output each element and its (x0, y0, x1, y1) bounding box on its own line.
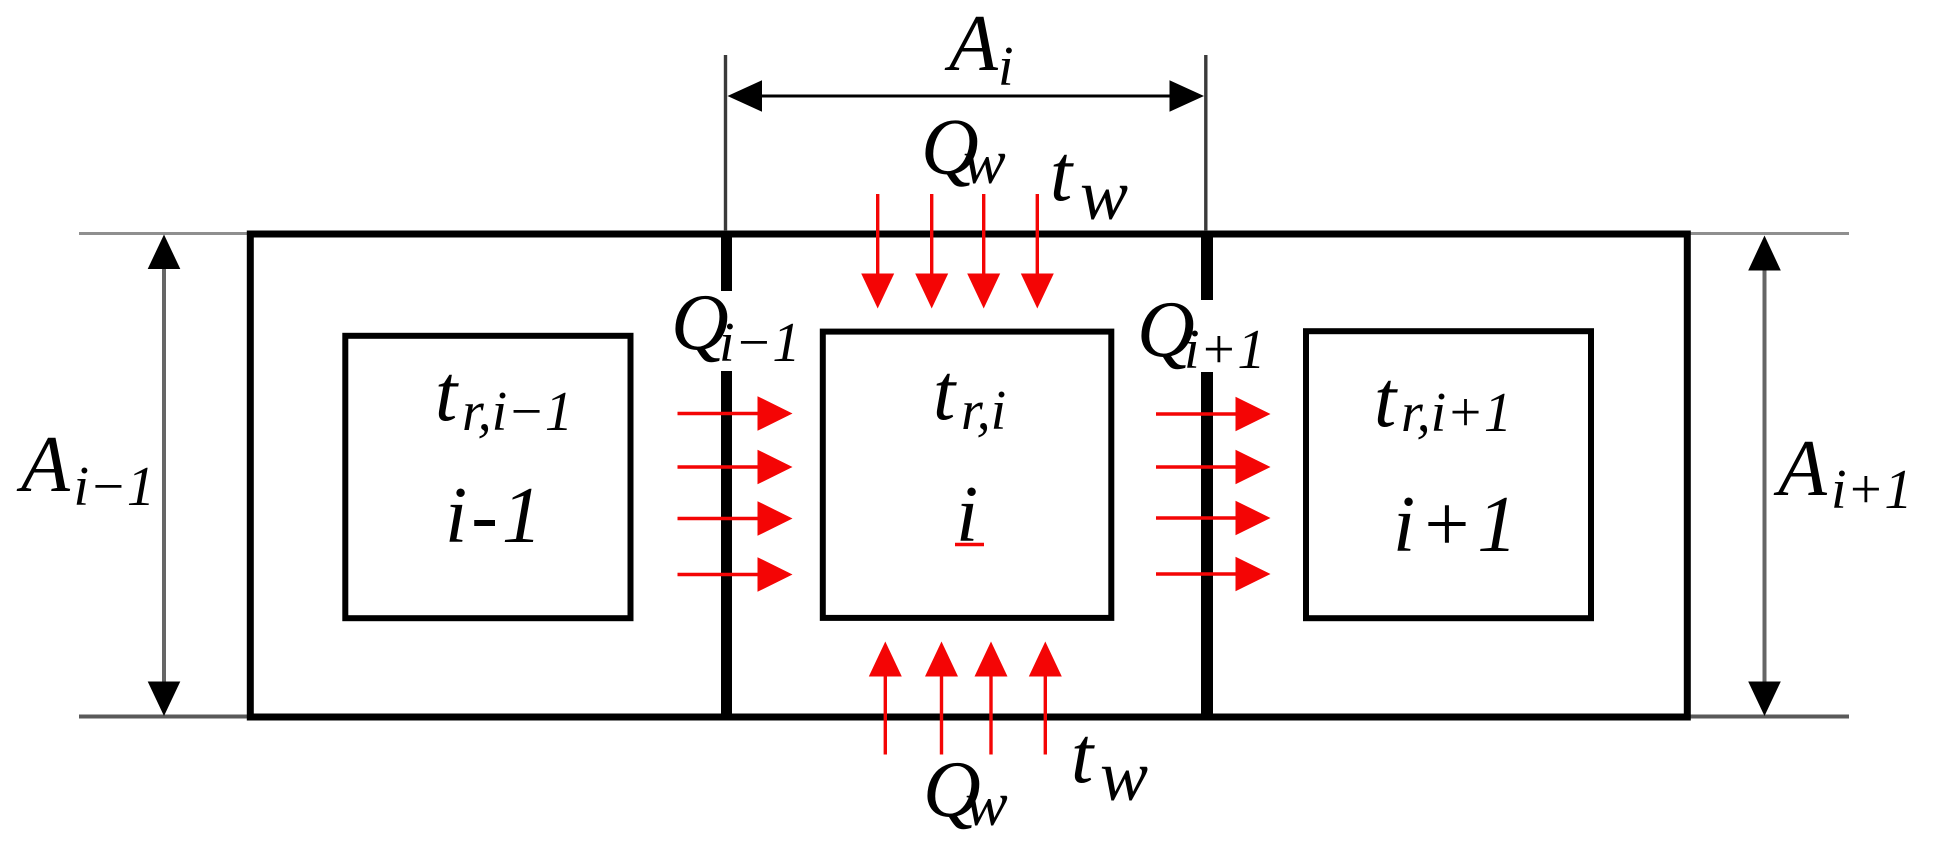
Q_i+1 airflow arrows (right) (1156, 412, 1236, 415)
svg-text:i−1: i−1 (74, 456, 155, 518)
A_i-1 dimension line (162, 255, 166, 697)
svg-text:w: w (963, 126, 1006, 197)
svg-text:i+1: i+1 (1184, 319, 1265, 381)
A_i extension line right (1204, 55, 1207, 231)
svg-text:t: t (1374, 356, 1398, 444)
extension line bottom (79, 715, 1849, 719)
label t_w top (1050, 130, 1128, 235)
inner square zone i+1 (1306, 331, 1591, 618)
svg-text:i-1: i-1 (445, 472, 546, 560)
A_i+1 dimension line (1763, 255, 1767, 697)
svg-text:A: A (1773, 425, 1828, 513)
svg-text:t: t (435, 350, 459, 438)
svg-text:t: t (933, 349, 957, 437)
inner square zone i (823, 332, 1112, 618)
label A_i (944, 0, 1014, 98)
label zone i+1 (1393, 481, 1521, 569)
label A_i+1 (1773, 425, 1912, 521)
label Q_w bottom (923, 746, 1008, 839)
svg-text:r,i−1: r,i−1 (462, 381, 573, 443)
right partition wall (1201, 236, 1213, 300)
label zone i (956, 471, 978, 559)
left partition wall (721, 236, 732, 291)
svg-text:i+1: i+1 (1393, 481, 1521, 569)
svg-text:i: i (998, 36, 1014, 98)
inner square zone i-1 (345, 336, 630, 618)
svg-text:i−1: i−1 (719, 312, 800, 374)
label t_r,i-1 (435, 350, 573, 443)
label Q_i-1 (671, 279, 800, 374)
Q_i-1 airflow arrows (right) (678, 412, 758, 415)
svg-text:t: t (1050, 130, 1074, 218)
label t_r,i (933, 349, 1006, 442)
svg-text:w: w (1080, 155, 1128, 235)
svg-text:r,i: r,i (961, 380, 1006, 442)
svg-text:i+1: i+1 (1831, 459, 1912, 521)
extension line top (79, 232, 1849, 235)
label Q_i+1 (1137, 286, 1265, 381)
top Q_w heat flux arrows (down) (876, 194, 879, 276)
svg-text:t: t (1071, 712, 1095, 800)
label Q_w top (921, 104, 1006, 198)
svg-text:A: A (16, 421, 71, 509)
red underline under zone i (955, 543, 984, 547)
A_i dimension line (750, 95, 1183, 98)
label t_r,i+1 (1374, 356, 1512, 444)
svg-text:w: w (1100, 736, 1148, 816)
label t_w bottom (1071, 712, 1148, 816)
svg-text:w: w (965, 768, 1008, 839)
svg-text:A: A (944, 0, 999, 88)
label A_i-1 (16, 421, 155, 518)
svg-text:r,i+1: r,i+1 (1401, 382, 1512, 444)
label zone i-1 (445, 472, 546, 560)
outer duct rectangle (250, 234, 1687, 717)
A_i extension line left (724, 55, 727, 231)
bottom Q_w heat flux arrows (up) (884, 673, 887, 755)
